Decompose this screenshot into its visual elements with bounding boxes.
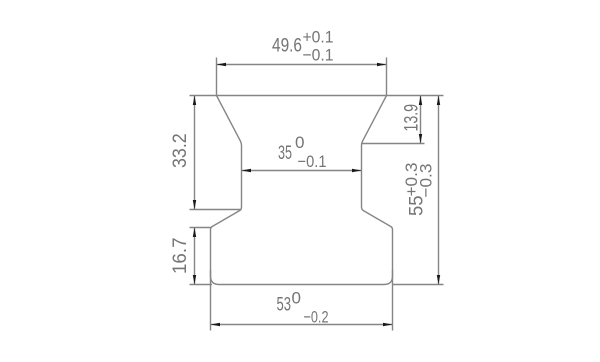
svg-text:−0.3: −0.3 bbox=[417, 164, 436, 198]
svg-text:53: 53 bbox=[277, 294, 292, 316]
arrow 35 right bbox=[352, 169, 362, 172]
extension line 49.6 right bbox=[386, 58, 388, 96]
svg-text:49.6: 49.6 bbox=[272, 35, 302, 57]
svg-text:33.2: 33.2 bbox=[169, 133, 191, 168]
extension line 49.6 left bbox=[216, 58, 218, 96]
extension line 16.7 bottom bbox=[190, 284, 213, 286]
top edge with left and right extension lines bbox=[190, 95, 444, 97]
arrow 16.7 bottom bbox=[193, 275, 196, 285]
arrow 53 left bbox=[211, 323, 221, 326]
extension line 53 left bbox=[210, 270, 212, 331]
extension line 53 right bbox=[392, 270, 394, 331]
svg-text:−0.1: −0.1 bbox=[303, 46, 334, 65]
svg-text:+0.1: +0.1 bbox=[303, 28, 334, 47]
arrow 16.7 top bbox=[193, 228, 196, 238]
dimension line 55 bbox=[438, 96, 440, 285]
svg-text:0: 0 bbox=[292, 289, 302, 308]
svg-text:35: 35 bbox=[278, 142, 292, 164]
arrow 55 top bbox=[437, 96, 440, 106]
arrow 55 bottom bbox=[437, 275, 440, 285]
arrow 49.6 right bbox=[377, 63, 387, 66]
dimension line 35 bbox=[242, 170, 362, 172]
dimension line 49.6 bbox=[217, 64, 387, 66]
extension line 13.9 bottom bbox=[362, 143, 425, 145]
svg-text:−0.1: −0.1 bbox=[298, 152, 327, 171]
dimension line 33.2 bbox=[194, 96, 196, 210]
svg-text:13.9: 13.9 bbox=[401, 104, 423, 132]
arrow 13.9 bottom bbox=[419, 134, 422, 144]
dimension line 53 bbox=[211, 324, 393, 326]
svg-text:0: 0 bbox=[295, 133, 305, 152]
arrow 49.6 left bbox=[217, 63, 227, 66]
extension line 16.7 top bbox=[190, 227, 211, 229]
profile outline (rail cross-section) bbox=[211, 96, 393, 285]
svg-text:−0.2: −0.2 bbox=[304, 307, 329, 326]
extension line 33.2 bottom bbox=[190, 209, 242, 211]
arrow 33.2 top bbox=[193, 96, 196, 106]
svg-text:16.7: 16.7 bbox=[169, 238, 191, 275]
dimension line 16.7 bbox=[194, 228, 196, 285]
arrow 13.9 top bbox=[419, 96, 422, 106]
extension line bottom right bbox=[393, 284, 444, 286]
arrow 35 left bbox=[242, 169, 252, 172]
arrow 33.2 bottom bbox=[193, 200, 196, 210]
arrow 53 right bbox=[383, 323, 393, 326]
dimension line 13.9 bbox=[420, 96, 422, 144]
